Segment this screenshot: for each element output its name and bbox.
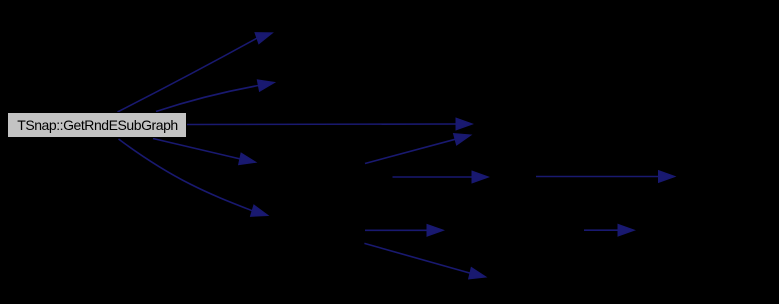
edge node G->node I: [364, 243, 486, 279]
edge main->node C (horizontal): [186, 118, 473, 130]
edge node G->node H: [365, 224, 444, 236]
edge node H->node J: [584, 224, 635, 236]
edge node E->node F: [536, 171, 675, 183]
node main TSnap::GetRndESubGraph: [7, 112, 187, 138]
edge node D->node C: [365, 134, 471, 164]
edge main->node A (top): [118, 33, 273, 112]
edge node D->node E: [393, 171, 489, 183]
edge main->node D: [153, 139, 256, 165]
edge main->node B: [156, 80, 275, 112]
edge main->node G (curved): [119, 139, 269, 216]
